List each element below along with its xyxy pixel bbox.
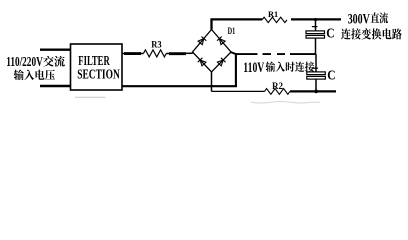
- wire: bridge DC- lead: [211, 72, 213, 91]
- svg-text:110/220V: 110/220V: [6, 54, 43, 69]
- svg-text:300V: 300V: [348, 11, 371, 27]
- wire: bridge AC right feed down: [235, 53, 237, 86]
- filter block: FILTER SECTION: [71, 44, 123, 90]
- svg-text:C: C: [327, 67, 335, 82]
- diode D1d (DC- to AC-R): [217, 60, 223, 66]
- label text: DC label: [371, 12, 389, 23]
- svg-text:R1: R1: [268, 9, 278, 19]
- wire: faint print artifact under filter box: [75, 96, 106, 98]
- svg-text:C: C: [326, 25, 334, 40]
- wire: bottom DC rail left: [212, 90, 265, 92]
- wire: R3 to bridge AC left: [166, 52, 193, 54]
- diode D1c (DC- to AC-L): [200, 60, 206, 66]
- svg-text:SECTION: SECTION: [77, 67, 120, 82]
- diode D1b (AC-R to DC+): [219, 39, 225, 45]
- wire: faint print artifact bottom right: [251, 102, 320, 104]
- node: C1 top junction: [314, 18, 317, 21]
- diode D1a (AC-L to DC+): [198, 39, 204, 45]
- wire: bridge DC+ lead and top rail: [212, 19, 263, 29]
- svg-text:R3: R3: [151, 40, 162, 50]
- resistor R1: [262, 9, 287, 23]
- wire: filter top output: [122, 53, 144, 55]
- capacitor C2: [307, 54, 336, 91]
- label text: connect to converter circuit: [341, 28, 402, 39]
- node: C2 bottom junction: [314, 90, 318, 94]
- label text: connect when 110V input: [266, 61, 315, 71]
- svg-text:D1: D1: [228, 27, 236, 37]
- resistor R2: [265, 81, 290, 94]
- wire: AC input bottom stub: [40, 85, 70, 87]
- label text: AC label: [43, 56, 65, 67]
- wire: 110V doubler dashed link: [231, 52, 316, 54]
- capacitor C1: [306, 19, 335, 54]
- wire: filter bottom output rail: [122, 85, 237, 87]
- label text: input voltage line2: [14, 70, 55, 81]
- wire: bottom DC rail right: [290, 90, 336, 92]
- svg-text:110V: 110V: [243, 60, 264, 76]
- wire: AC input top stub: [40, 49, 70, 51]
- wire: top rail to output: [291, 18, 341, 20]
- svg-text:R2: R2: [272, 81, 283, 91]
- wire: bridge diamond: [193, 30, 232, 73]
- resistor R3: [144, 40, 167, 57]
- bridge rectifier D1: [193, 27, 236, 72]
